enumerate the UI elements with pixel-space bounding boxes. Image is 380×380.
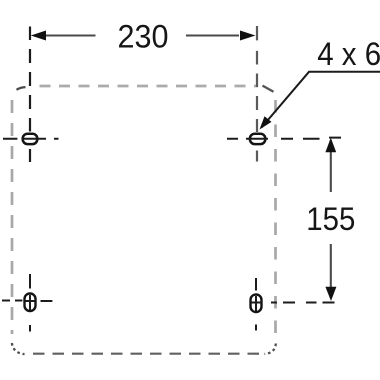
extension line right (x=257) xyxy=(256,26,258,162)
panel outline right edge (gray dashed) xyxy=(274,100,277,338)
centerline horizontal top-left hole xyxy=(3,138,59,140)
svg-text:155: 155 xyxy=(306,201,355,237)
centerline vertical bottom-right hole xyxy=(255,278,257,331)
centerline vertical bottom-left hole xyxy=(29,274,31,332)
corner arc bottom-left xyxy=(12,343,25,354)
dimension arrowhead left xyxy=(31,31,46,41)
dimension arrowhead up xyxy=(325,138,336,153)
panel outline top edge (gray dashed) xyxy=(40,85,259,88)
dimension line 230 right segment xyxy=(186,35,239,37)
hole top-left (slot) xyxy=(23,134,38,144)
panel outline left edge (gray dashed) xyxy=(11,100,14,334)
dimension line 155 lower segment xyxy=(330,244,332,298)
dimension line 155 upper segment xyxy=(330,140,332,192)
svg-text:230: 230 xyxy=(118,19,169,55)
hole bottom-right (slot) xyxy=(251,295,262,313)
corner mark top-left xyxy=(17,87,26,90)
hole bottom-left (slot) xyxy=(25,294,36,312)
dimension arrowhead down xyxy=(325,287,336,301)
centerline horizontal bottom-right hole xyxy=(251,302,335,304)
corner mark top-right xyxy=(263,86,274,92)
centerline horizontal top-right hole xyxy=(227,138,341,139)
leader arrowhead xyxy=(260,116,272,129)
leader line for 4 x 6 xyxy=(262,72,380,128)
dimension arrowhead right xyxy=(240,31,255,41)
svg-text:4 x 6: 4 x 6 xyxy=(317,36,380,72)
corner arc bottom-right xyxy=(265,344,276,355)
extension line left (x=30) xyxy=(29,27,31,163)
centerline horizontal bottom-left hole xyxy=(2,300,52,303)
hole top-right (slot) xyxy=(250,134,265,144)
dimension line 230 left segment xyxy=(46,35,96,37)
panel outline bottom edge (dark dashed) xyxy=(33,353,267,355)
